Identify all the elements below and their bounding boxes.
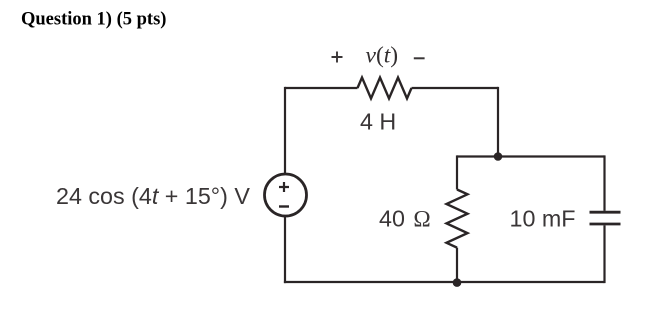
label: minus polarity sign of v(t) xyxy=(414,57,425,59)
svg-text:4 H: 4 H xyxy=(360,109,396,135)
svg-text:Question 1) (5 pts): Question 1) (5 pts) xyxy=(21,10,166,30)
capacitor C1 top plate xyxy=(590,211,621,214)
wire: left vertical below source xyxy=(284,216,286,283)
svg-text:40 Ω: 40 Ω xyxy=(379,205,431,232)
voltage source minus terminal mark xyxy=(279,205,289,207)
voltage source VS1 (circle) xyxy=(265,174,307,216)
wire: resistor bottom lead xyxy=(456,248,458,282)
wire: top-right horizontal segment xyxy=(412,87,499,89)
node B (junction dot, bottom) xyxy=(453,278,462,287)
capacitor C1 bottom plate xyxy=(590,223,621,226)
voltage source plus terminal mark xyxy=(279,182,289,192)
wire: resistor top lead xyxy=(456,155,458,189)
wire: left vertical above source xyxy=(284,87,286,175)
label: plus polarity sign of v(t) xyxy=(332,52,343,63)
inductor L1 4H (zigzag body) xyxy=(358,78,412,99)
resistor R1 40Ω (vertical zigzag body) xyxy=(447,190,468,248)
wire: outer right vertical segment xyxy=(497,87,499,157)
wire: capacitor top lead xyxy=(603,155,605,210)
svg-text:v(t): v(t) xyxy=(366,43,399,69)
wire: top-left horizontal segment xyxy=(285,87,358,89)
wire: capacitor bottom lead xyxy=(603,225,605,283)
svg-text:24 cos (4t + 15°) V: 24 cos (4t + 15°) V xyxy=(56,183,250,209)
wire: inner top horizontal segment xyxy=(457,155,605,157)
wire: bottom horizontal segment xyxy=(284,281,605,283)
node A (junction dot, top) xyxy=(494,152,503,161)
svg-text:10 mF: 10 mF xyxy=(510,205,576,231)
